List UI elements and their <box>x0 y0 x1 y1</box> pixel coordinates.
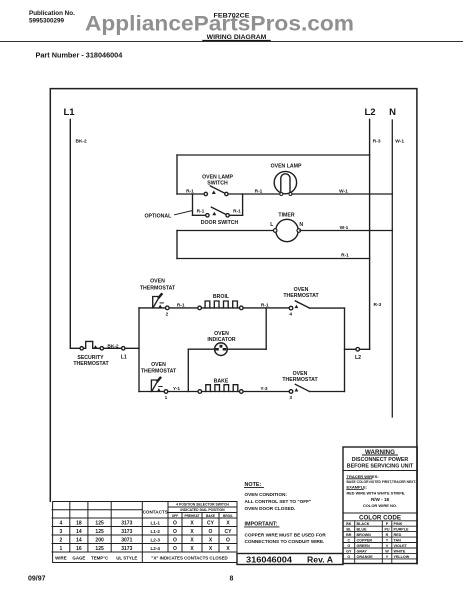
svg-text:X: X <box>190 521 194 527</box>
wire: door switch row left <box>193 214 206 216</box>
svg-text:TEMP°C: TEMP°C <box>91 555 109 560</box>
wire: right connector vertical <box>344 308 346 391</box>
wire: oven indicator left drop <box>187 349 189 391</box>
svg-text:R-1: R-1 <box>177 302 185 308</box>
svg-text:WIRE: WIRE <box>55 555 67 560</box>
wire: lamp switch to lamp <box>228 193 280 195</box>
svg-text:OVEN CONDITION:: OVEN CONDITION: <box>245 492 288 497</box>
svg-text:Y-1: Y-1 <box>173 386 181 392</box>
node: bake right terminal <box>240 390 244 394</box>
svg-text:GY: GY <box>346 549 352 553</box>
wire N rail <box>391 120 393 417</box>
svg-text:FEB702CE: FEB702CE <box>214 13 250 20</box>
svg-text:DOOR SWITCH: DOOR SWITCH <box>201 220 239 226</box>
border frame <box>50 89 417 564</box>
svg-text:3071: 3071 <box>121 538 132 544</box>
svg-text:R-1: R-1 <box>261 302 269 308</box>
wire: bake row to right connector <box>310 391 345 393</box>
svg-text:TIMER: TIMER <box>278 213 294 219</box>
svg-text:RED WIRE WITH WHITE STRIPE.: RED WIRE WITH WHITE STRIPE. <box>347 491 406 495</box>
svg-text:THERMOSTAT: THERMOSTAT <box>73 361 109 367</box>
svg-text:WHITE: WHITE <box>394 549 406 553</box>
svg-text:2: 2 <box>166 311 169 317</box>
svg-text:Rev. A: Rev. A <box>307 555 333 565</box>
svg-text:R-3: R-3 <box>374 302 382 308</box>
svg-text:BAKE: BAKE <box>214 378 229 384</box>
svg-text:X: X <box>226 521 230 527</box>
wire: timer row left <box>177 230 275 232</box>
svg-text:14: 14 <box>76 529 82 535</box>
svg-text:BROWN: BROWN <box>357 533 372 537</box>
svg-text:BK-2: BK-2 <box>107 344 119 350</box>
svg-text:W-1: W-1 <box>395 139 404 145</box>
color code table text <box>346 522 410 559</box>
node: broil right terminal <box>240 306 244 310</box>
svg-text:R-1: R-1 <box>197 209 205 215</box>
svg-text:RED: RED <box>394 533 402 537</box>
svg-text:N: N <box>299 222 303 228</box>
svg-text:BEFORE SERVICING UNIT: BEFORE SERVICING UNIT <box>347 464 414 470</box>
svg-text:BROIL: BROIL <box>213 294 230 300</box>
thermostat: oven thermostat 3 <box>282 371 318 401</box>
svg-text:R: R <box>386 533 389 537</box>
wire: broil row to right connector <box>310 307 345 309</box>
svg-text:YELLOW: YELLOW <box>394 555 410 559</box>
svg-text:ORANGE: ORANGE <box>357 555 374 559</box>
wire: lamp to N rail <box>292 193 392 195</box>
svg-text:T: T <box>386 539 389 543</box>
thermostat: security thermostat <box>70 341 139 367</box>
svg-text:THERMOSTAT: THERMOSTAT <box>283 293 319 299</box>
indicator lamp: oven indicator <box>207 331 236 356</box>
svg-text:TRACER WIRES:: TRACER WIRES: <box>347 474 379 479</box>
svg-text:3: 3 <box>289 395 292 401</box>
title block: part number <box>36 50 124 59</box>
svg-text:OVEN: OVEN <box>150 279 165 285</box>
svg-text:TAN: TAN <box>394 539 402 543</box>
svg-text:BLUE: BLUE <box>357 528 368 532</box>
svg-text:ALL CONTROL SET TO "OFF": ALL CONTROL SET TO "OFF" <box>245 499 312 504</box>
wire: lamp circuit left drop <box>176 155 178 194</box>
svg-text:X: X <box>190 546 194 552</box>
part number bar <box>237 554 343 565</box>
svg-text:125: 125 <box>95 521 104 527</box>
svg-text:4: 4 <box>289 312 292 318</box>
svg-text:L2-4: L2-4 <box>150 546 160 551</box>
svg-text:BLACK: BLACK <box>357 522 370 526</box>
svg-text:CONNECTIONS TO CONDUIT WIRE.: CONNECTIONS TO CONDUIT WIRE. <box>245 539 325 544</box>
svg-text:L2-3: L2-3 <box>150 538 160 543</box>
node: broil left terminal <box>198 306 202 310</box>
svg-text:CY: CY <box>225 529 233 535</box>
svg-text:OPTIONAL: OPTIONAL <box>145 213 173 219</box>
svg-text:O: O <box>347 555 350 559</box>
svg-text:125: 125 <box>95 529 104 535</box>
svg-text:X: X <box>190 538 194 544</box>
title block: publication number <box>29 10 75 24</box>
svg-text:COPPER: COPPER <box>357 539 373 543</box>
header rule <box>0 40 463 42</box>
warning box <box>343 447 417 564</box>
svg-text:O: O <box>173 538 177 544</box>
svg-text:200: 200 <box>95 538 104 544</box>
svg-text:BK: BK <box>346 522 352 526</box>
wire: door switch branch right rise <box>242 194 244 215</box>
svg-text:W: W <box>385 549 389 553</box>
title block: WIRING DIAGRAM <box>203 34 270 41</box>
svg-text:W-1: W-1 <box>339 188 348 194</box>
svg-text:R-1: R-1 <box>233 209 241 215</box>
svg-text:OVEN: OVEN <box>151 362 166 368</box>
svg-text:5995300299: 5995300299 <box>29 17 65 24</box>
svg-text:CONTACTS: CONTACTS <box>143 510 168 515</box>
svg-text:OVEN DOOR CLOSED.: OVEN DOOR CLOSED. <box>245 506 296 511</box>
svg-text:COPPER WIRE MUST BE USED FOR: COPPER WIRE MUST BE USED FOR <box>245 533 327 538</box>
svg-text:316046004: 316046004 <box>246 555 292 565</box>
svg-text:L2: L2 <box>355 355 361 361</box>
svg-text:COLOR WIRE NO.: COLOR WIRE NO. <box>363 503 397 508</box>
svg-text:Y: Y <box>386 555 389 559</box>
svg-text:G: G <box>347 544 350 548</box>
svg-text:PREHEAT: PREHEAT <box>185 514 200 518</box>
wire gauge table text <box>55 503 233 561</box>
svg-text:16: 16 <box>76 546 82 552</box>
svg-text:BROIL: BROIL <box>223 514 233 518</box>
wire: oven indicator right rise <box>265 308 267 349</box>
svg-text:4 POSITION SELECTOR SWITCH: 4 POSITION SELECTOR SWITCH <box>176 503 229 507</box>
color code table <box>343 521 417 564</box>
wire: oven indicator row <box>188 348 266 350</box>
wire: bake row baseline <box>139 391 289 393</box>
svg-text:O: O <box>173 521 177 527</box>
svg-text:W-1: W-1 <box>340 225 349 231</box>
thermostat: oven thermostat 2 <box>140 279 176 318</box>
svg-text:R/W - 18: R/W - 18 <box>371 497 390 502</box>
svg-text:09/97: 09/97 <box>28 576 46 583</box>
svg-text:L1-1: L1-1 <box>150 521 160 526</box>
svg-text:GAGE: GAGE <box>72 555 85 560</box>
wire gauge table <box>52 502 237 563</box>
node L2 terminal <box>356 348 360 352</box>
svg-text:P: P <box>386 522 389 526</box>
svg-text:L1: L1 <box>121 355 127 361</box>
svg-text:Y-3: Y-3 <box>260 386 268 392</box>
svg-text:3173: 3173 <box>121 529 132 535</box>
svg-text:Part Number - 318046004: Part Number - 318046004 <box>36 50 124 59</box>
svg-text:SECURITY: SECURITY <box>77 355 104 361</box>
svg-text:8: 8 <box>230 576 234 583</box>
wire: lamp circuit top feed from L2 <box>177 154 370 156</box>
svg-text:BR: BR <box>346 533 352 537</box>
svg-text:UL STYLE: UL STYLE <box>116 555 137 560</box>
svg-text:O: O <box>226 538 230 544</box>
svg-text:4: 4 <box>60 521 63 527</box>
svg-text:3173: 3173 <box>121 546 132 552</box>
svg-text:X: X <box>209 538 213 544</box>
svg-text:THERMOSTAT: THERMOSTAT <box>282 377 318 383</box>
wire L2 rail <box>369 120 371 350</box>
svg-text:DISCONNECT POWER: DISCONNECT POWER <box>352 457 409 463</box>
svg-text:R-1: R-1 <box>341 253 349 259</box>
svg-text:BK-2: BK-2 <box>76 139 88 145</box>
svg-text:X: X <box>190 529 194 535</box>
svg-text:L2: L2 <box>364 107 375 118</box>
switch: oven lamp switch <box>202 175 233 196</box>
svg-text:1: 1 <box>165 395 168 401</box>
svg-text:OVEN LAMP: OVEN LAMP <box>271 163 302 169</box>
svg-text:3: 3 <box>60 529 63 535</box>
svg-text:X: X <box>209 546 213 552</box>
timer <box>270 213 303 242</box>
wire: door switch branch left drop <box>192 194 194 215</box>
svg-text:O: O <box>173 529 177 535</box>
svg-text:OVEN: OVEN <box>214 331 229 337</box>
svg-text:BL: BL <box>346 528 352 532</box>
svg-text:V: V <box>386 544 389 548</box>
svg-text:VIOLET: VIOLET <box>394 544 408 548</box>
lamp: oven lamp <box>271 163 302 195</box>
node: bake left terminal <box>198 390 202 394</box>
svg-text:THERMOSTAT: THERMOSTAT <box>141 369 177 375</box>
wire: lamp switch row left segment <box>177 193 204 195</box>
wire: branch junction vertical <box>138 308 140 392</box>
svg-text:14: 14 <box>76 538 82 544</box>
svg-text:1: 1 <box>60 546 63 552</box>
svg-text:L1-2: L1-2 <box>150 529 160 534</box>
svg-text:18: 18 <box>76 521 82 527</box>
svg-text:3173: 3173 <box>121 521 132 527</box>
svg-text:"X" INDICATES CONTACTS CLOSED: "X" INDICATES CONTACTS CLOSED <box>151 555 227 560</box>
svg-text:GREEN: GREEN <box>357 544 370 548</box>
heating element BAKE <box>206 378 238 391</box>
wire: timer box bottom to L2 <box>177 258 370 260</box>
svg-text:OFF: OFF <box>172 514 178 518</box>
wire: broil row baseline <box>139 307 289 309</box>
wire: timer to N rail <box>300 230 392 232</box>
wire L1 rail <box>69 120 71 349</box>
label OPTIONAL with pointer <box>145 211 193 220</box>
svg-text:BAKE: BAKE <box>206 514 215 518</box>
wire: door switch row right <box>229 214 242 216</box>
svg-text:R-1: R-1 <box>255 188 263 194</box>
svg-text:Publication No.: Publication No. <box>29 10 75 17</box>
svg-text:GRAY: GRAY <box>357 549 368 553</box>
wire: L2 terminal row <box>345 348 370 350</box>
svg-text:PURPLE: PURPLE <box>394 528 409 532</box>
svg-text:PINK: PINK <box>394 522 403 526</box>
svg-text:2: 2 <box>60 538 63 544</box>
svg-text:N: N <box>389 107 396 118</box>
svg-text:INDICATED DIAL POSITION: INDICATED DIAL POSITION <box>180 508 225 512</box>
svg-text:EXAMPLE:: EXAMPLE: <box>347 485 368 490</box>
svg-text:THERMOSTAT: THERMOSTAT <box>140 285 176 291</box>
title block: model number FEB702CE <box>214 13 250 20</box>
svg-text:X: X <box>226 546 230 552</box>
thermostat: oven thermostat 1 <box>141 362 177 401</box>
svg-text:O: O <box>173 546 177 552</box>
svg-text:O: O <box>209 529 213 535</box>
heating element BROIL <box>205 294 237 308</box>
watermark AppliancePartsPros.com <box>85 12 354 35</box>
svg-text:125: 125 <box>95 546 104 552</box>
svg-text:L1: L1 <box>63 107 75 118</box>
svg-text:L: L <box>270 222 274 228</box>
svg-text:PU: PU <box>384 528 389 532</box>
switch: door switch <box>201 207 239 226</box>
svg-text:CY: CY <box>207 521 215 527</box>
wire: timer box left edge <box>176 231 178 259</box>
svg-text:C: C <box>347 539 350 543</box>
thermostat: oven thermostat 4 <box>283 287 319 318</box>
note block <box>245 482 327 544</box>
svg-text:BASE COLOR NOTED FIRST,TRACER: BASE COLOR NOTED FIRST,TRACER NEXT. <box>347 480 417 484</box>
svg-text:R-3: R-3 <box>373 139 381 145</box>
